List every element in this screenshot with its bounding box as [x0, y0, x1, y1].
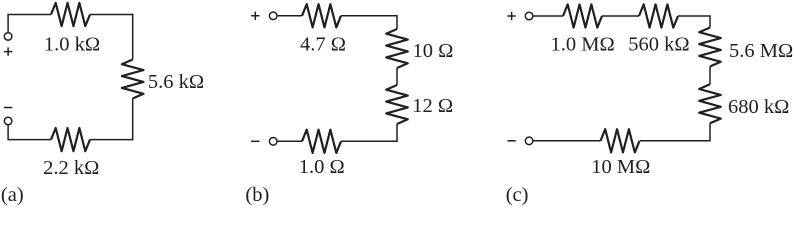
wire bottom-left segment (a)	[8, 139, 51, 141]
minus sign (c)	[507, 140, 515, 142]
svg-text:2.2 kΩ: 2.2 kΩ	[43, 157, 99, 179]
terminal + (c)	[525, 12, 533, 20]
svg-text:560 kΩ: 560 kΩ	[628, 33, 689, 55]
resistor 5.6 MΩ (c)	[699, 28, 721, 67]
wire right lower (c)	[709, 123, 711, 141]
resistor 560 kΩ (c)	[639, 4, 678, 27]
svg-text:1.0 Ω: 1.0 Ω	[299, 156, 345, 178]
svg-text:1.0 kΩ: 1.0 kΩ	[44, 33, 100, 55]
terminal - (a)	[4, 117, 12, 125]
svg-text:680 kΩ: 680 kΩ	[728, 96, 789, 118]
wire top-left segment (a)	[8, 14, 51, 16]
terminal - (c)	[525, 137, 533, 145]
wire from + terminal (c)	[534, 15, 564, 17]
svg-text:(c): (c)	[506, 184, 529, 206]
wire right upper (a)	[132, 14, 134, 60]
wire right middle (c)	[709, 67, 711, 85]
terminal - (b)	[269, 138, 277, 146]
wire between top resistors (c)	[602, 15, 639, 17]
svg-text:12 Ω: 12 Ω	[412, 95, 453, 117]
resistor 2.2 kΩ (a)	[51, 128, 90, 151]
resistor 1.0 MΩ (c)	[563, 4, 602, 27]
circuit (b)	[245, 4, 453, 206]
wire from - terminal (a)	[7, 126, 9, 141]
circuit (c)	[506, 4, 794, 206]
svg-text:5.6 MΩ: 5.6 MΩ	[729, 40, 793, 62]
wire to + terminal (a)	[7, 14, 9, 32]
wire bottom-right segment (a)	[90, 139, 133, 141]
resistor 680 kΩ (c)	[699, 84, 721, 123]
svg-text:10 Ω: 10 Ω	[413, 40, 454, 62]
wire top-right segment (a)	[90, 14, 133, 16]
plus sign (a)	[4, 47, 12, 55]
plus sign (b)	[251, 12, 259, 20]
wire to - terminal (b)	[278, 140, 302, 142]
terminal + (a)	[4, 33, 12, 41]
wire right lower (a)	[132, 99, 134, 141]
wire bottom-right segment (c)	[640, 140, 710, 142]
svg-text:(a): (a)	[1, 184, 24, 206]
resistor 4.7 Ω (b)	[302, 4, 341, 27]
plus sign (c)	[507, 12, 515, 20]
resistor 1.0 kΩ (a)	[51, 3, 90, 26]
resistor 10 MΩ (c)	[601, 129, 640, 152]
svg-text:4.7 Ω: 4.7 Ω	[300, 33, 346, 55]
wire top-right segment (c)	[678, 15, 710, 17]
wire bottom-right segment (b)	[341, 140, 397, 142]
svg-text:1.0 MΩ: 1.0 MΩ	[550, 33, 614, 55]
wire to - terminal (c)	[534, 140, 601, 142]
resistor 10 Ω (b)	[386, 29, 408, 68]
svg-text:5.6 kΩ: 5.6 kΩ	[148, 71, 204, 93]
minus sign (a)	[4, 107, 12, 109]
resistor 12 Ω (b)	[386, 85, 408, 124]
svg-text:(b): (b)	[245, 184, 269, 206]
resistor 1.0 Ω (b)	[302, 130, 341, 153]
wire right lower (b)	[396, 124, 398, 142]
wire from + terminal (b)	[278, 15, 302, 17]
wire right middle (b)	[396, 68, 398, 85]
wire top-right segment (b)	[341, 15, 397, 17]
circuit (a)	[1, 3, 204, 206]
wire right upper (b)	[396, 15, 398, 29]
terminal + (b)	[269, 12, 277, 20]
wire right upper (c)	[709, 15, 711, 27]
svg-text:10 MΩ: 10 MΩ	[591, 156, 650, 178]
resistor 5.6 kΩ (a)	[122, 60, 144, 99]
minus sign (b)	[251, 140, 259, 142]
